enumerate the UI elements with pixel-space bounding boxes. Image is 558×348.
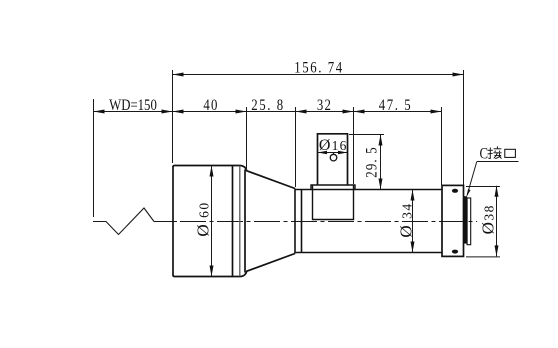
- extension line x=441.5: [441, 107, 443, 185]
- svg-text:47. 5: 47. 5: [379, 97, 413, 115]
- dimension 32: [295, 97, 354, 115]
- extension line x=353.5: [353, 107, 355, 184]
- dimension 47.5: [354, 97, 442, 115]
- lens body Ø60 cylinder: [173, 166, 295, 277]
- top port base plate: [311, 185, 355, 190]
- extension line x=172: [172, 70, 174, 163]
- center line (optical axis): [154, 221, 477, 223]
- svg-text:Ø 34: Ø 34: [396, 202, 415, 237]
- small hole circle under Ø16: [330, 154, 337, 161]
- dimension Ø38: [466, 186, 500, 257]
- svg-text:WD=150: WD=150: [109, 97, 157, 115]
- label Ø16: [319, 137, 348, 154]
- dimension Ø16 line and arrows: [318, 151, 348, 155]
- dimension WD=150: [93, 97, 173, 115]
- extension line x=295: [295, 107, 297, 187]
- svg-text:29. 5: 29. 5: [363, 146, 381, 178]
- svg-text:Ø 60: Ø 60: [194, 201, 213, 236]
- flange screw hole top: [452, 189, 458, 193]
- svg-text:156. 74: 156. 74: [294, 59, 344, 77]
- extension line x=463.5: [463, 70, 465, 185]
- svg-text:40: 40: [203, 97, 218, 115]
- dimension Ø34: [396, 190, 415, 253]
- dimension 40: [172, 97, 247, 115]
- dimension Ø60: [194, 166, 214, 277]
- svg-text:32: 32: [317, 97, 332, 115]
- extension line x=246: [246, 107, 248, 170]
- C-mount flange plate: [442, 185, 464, 256]
- svg-text:Ø16: Ø16: [319, 137, 348, 154]
- label C接口 with leader: [467, 145, 519, 197]
- hand-drawn glyph 口: [505, 149, 516, 157]
- dimension 29.5: [349, 135, 384, 190]
- dimension 156.74: [172, 59, 464, 77]
- svg-text:Ø38: Ø38: [478, 204, 497, 234]
- top port box Ø16: [318, 134, 348, 185]
- lens body inner gray ring line: [239, 166, 241, 276]
- svg-text:C: C: [480, 145, 489, 163]
- flange screw hole bottom: [452, 250, 458, 254]
- barrel Ø34: [295, 190, 442, 253]
- top port inner bore rectangle: [313, 190, 354, 220]
- extension line WD left x=93: [93, 99, 95, 217]
- hand-drawn glyph 接: [488, 146, 502, 158]
- svg-text:25. 8: 25. 8: [251, 97, 285, 115]
- dimension 25.8: [246, 97, 295, 115]
- object plane zigzag break line: [93, 208, 154, 235]
- cone-to-barrel junction rings: [295, 189, 302, 254]
- C-mount thread ring: [464, 196, 471, 245]
